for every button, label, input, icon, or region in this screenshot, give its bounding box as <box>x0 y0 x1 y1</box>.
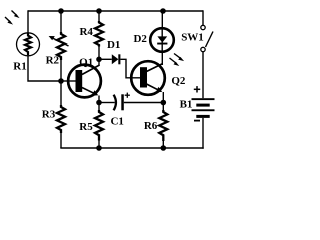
wire: R4 top lead <box>98 11 100 21</box>
wire: R2 top lead <box>60 11 62 32</box>
wire: Q1 collector diagonal <box>82 65 100 75</box>
wire: R4 bottom lead to collector node <box>98 47 100 60</box>
svg-text:Q2: Q2 <box>171 75 186 87</box>
Q2 emitter diagonal with arrow <box>147 84 163 92</box>
LED D2 internal vertical wire <box>161 29 163 51</box>
wire: Q2 emitter lead <box>162 92 164 103</box>
svg-text:SW1: SW1 <box>181 32 204 44</box>
wire: Q2 collector diagonal <box>147 64 163 72</box>
svg-text:R6: R6 <box>144 120 158 132</box>
svg-text:R5: R5 <box>79 121 93 133</box>
capacitor C1 straight positive plate <box>121 94 124 110</box>
resistor R5 zigzag <box>95 110 103 141</box>
LED D2 cathode bar <box>157 43 167 45</box>
wire: top rail to SW1 <box>202 10 204 25</box>
photoresistor R1 circle <box>17 33 40 56</box>
wire: top supply rail <box>28 10 203 12</box>
transistor Q2 circle <box>131 61 165 95</box>
wire: D2 top lead <box>161 11 163 28</box>
trimmer R2 zigzag <box>57 32 65 60</box>
junction dot: top rail / R4 <box>96 8 102 14</box>
wire: R1 bottom lead to base node <box>28 56 61 81</box>
diode D1 cathode bar <box>118 54 120 64</box>
switch SW1 lever <box>206 32 214 48</box>
wire: bottom ground rail <box>60 147 203 149</box>
junction dot: Q1 emitter / C1 / R5 node <box>96 100 102 106</box>
svg-text:Q1: Q1 <box>79 57 93 69</box>
LED D2 light arrow 2 <box>170 58 180 66</box>
battery B1 short plate 1 <box>196 104 209 107</box>
wire: Q1 collector lead <box>98 59 100 66</box>
light arrow 1 into R1 <box>12 11 20 19</box>
wire: Q1 emitter node to C1 curved plate <box>99 102 115 104</box>
transistor Q2 base bar <box>140 67 147 87</box>
transistor Q1 circle <box>68 65 101 98</box>
photoresistor R1 zigzag element <box>25 33 31 55</box>
diode D1 triangle <box>112 54 119 64</box>
svg-text:B1: B1 <box>180 99 193 111</box>
wire: SW1 to battery positive <box>202 52 204 98</box>
battery B1 long plate 2 <box>192 109 215 111</box>
wire: emitter node to C1 wire <box>124 102 164 104</box>
junction dot: R4/D1/Q1 collector node <box>96 57 102 63</box>
wire: R2 bottom lead to base node <box>60 60 62 81</box>
wire: R6 from emitter node <box>162 103 164 111</box>
junction dot: R6 / ground rail <box>161 145 167 151</box>
resistor R4 zigzag <box>95 21 103 47</box>
wire: D2 cathode to Q2 collector <box>161 51 163 65</box>
wire: D1 cathode to Q2 base <box>120 59 140 78</box>
LED D2 circle <box>150 28 174 52</box>
wire: battery negative to ground rail <box>202 118 204 149</box>
resistor R6 zigzag <box>159 110 167 141</box>
svg-text:R1: R1 <box>13 61 26 73</box>
wire: R3 bottom lead <box>60 133 62 148</box>
switch SW1 bottom terminal <box>201 47 205 51</box>
junction dot: Q2 emitter / C1 / R6 node <box>161 100 167 106</box>
wire: R5 bottom lead <box>98 141 100 149</box>
junction dot: top rail / D2 <box>160 8 166 14</box>
junction dot: base node <box>58 78 64 84</box>
wire: collector node to D1 anode <box>99 58 112 60</box>
wire: R1 top lead <box>27 10 29 32</box>
trimmer R2 wiper arrow <box>49 36 69 46</box>
capacitor C1 curved negative plate <box>114 95 116 111</box>
LED D2 light arrow 1 <box>174 54 184 62</box>
wire: Q1 base lead <box>63 80 76 82</box>
junction dot: top rail / R2 <box>58 8 64 14</box>
svg-text:D2: D2 <box>133 33 147 45</box>
svg-text:R3: R3 <box>42 109 56 121</box>
capacitor C1 plus sign <box>125 93 130 98</box>
resistor R3 zigzag <box>57 105 65 133</box>
battery B1 minus sign <box>194 120 200 122</box>
svg-text:R4: R4 <box>79 26 93 38</box>
svg-text:D1: D1 <box>107 39 120 51</box>
Q1 emitter diagonal with arrow <box>82 88 98 96</box>
wire: node to R5 <box>98 103 100 111</box>
wire: Q1 emitter lead <box>98 96 100 103</box>
svg-text:R2: R2 <box>46 55 60 67</box>
LED D2 triangle <box>157 36 167 42</box>
wire: base node to R3 <box>60 81 62 105</box>
battery B1 short plate 2 <box>196 115 209 118</box>
light arrow 2 into R1 <box>5 17 13 25</box>
switch SW1 top terminal <box>201 25 205 29</box>
junction dot: R5 / ground rail <box>96 145 102 151</box>
battery B1 long plate 1 <box>192 98 215 100</box>
battery B1 plus sign <box>194 86 200 92</box>
wire: R6 bottom lead <box>162 141 164 148</box>
svg-text:C1: C1 <box>110 116 123 128</box>
transistor Q1 base bar <box>76 70 83 92</box>
